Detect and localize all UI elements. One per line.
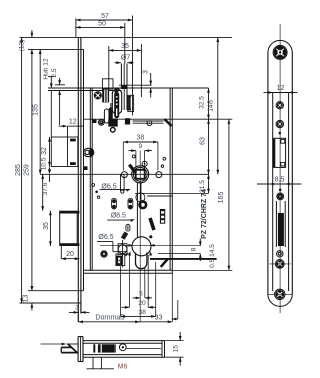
dim 148 line [216,37,219,174]
spindle hole line left [120,64,122,90]
dim 32.5 line [207,88,210,119]
bottom screw dot [122,346,124,348]
bottom plate top cap [78,336,83,338]
dim 20 deadbolt line [61,257,79,260]
latch bolt head outline [112,90,121,114]
faceplate bottom edge [20,302,81,304]
corner gusset top right [165,119,172,126]
dim 15 line [179,332,182,366]
dim 8.5 line [257,183,302,186]
bottom case top wall inner [83,342,162,344]
dim 57 text [101,13,109,20]
svg-text:135: 135 [33,104,40,116]
dim 35 left text [43,222,50,230]
washer left inner [102,252,106,256]
svg-text:(13): (13) [19,40,26,52]
pivot horizontal line [113,251,127,253]
side inner line left [272,93,274,292]
aux follower dark half [89,149,94,156]
bottom latch top line [67,343,79,345]
bottom case top wall [83,340,165,342]
dim 3 top line [149,73,152,98]
side slot left [275,201,277,247]
side plate top arc [268,40,292,52]
spring pin dark head left [112,199,116,208]
svg-text:20: 20 [138,300,146,307]
dim 57 left ext [75,18,77,37]
dim 148 text [207,100,214,112]
ext 38 left [119,266,121,316]
deadbolt inner edge [76,214,78,244]
dim 135 line [39,49,42,174]
case front wall outer [89,88,91,270]
svg-text:38: 38 [137,135,145,142]
svg-text:13: 13 [22,295,29,303]
dim 21.5 line [207,174,210,193]
latch top dark wedge [114,88,120,93]
latch bolt dark slide [114,92,119,118]
pivot square circle [118,245,127,254]
latch tail white slit [116,109,117,117]
svg-text:63: 63 [199,137,206,145]
leader 33 right arrow [172,300,178,320]
side top screw dark [276,48,285,57]
side cyl ring [277,251,283,257]
dim 3 plate ext left [77,303,79,322]
svg-text:35: 35 [121,43,129,50]
ext cyl right [147,255,149,307]
cylinder slot [136,253,147,269]
spring pin dark head right [129,199,133,208]
side plate right edge [291,52,293,294]
side plate centerline [279,24,281,313]
dim 35 left extension [108,46,110,89]
dim 38 text [139,309,147,316]
dim Hub12 line [50,77,53,88]
case top second line (2.5 offset) [48,90,122,92]
lift lever line left [120,174,122,191]
side plate bottom arc [268,294,292,306]
guide slot rectangle [128,95,134,111]
dim 13 text [22,295,29,303]
latch axis line [84,118,233,120]
dim 12 side line [264,91,298,94]
lever dark foot [121,232,128,240]
bottom latch left cap [60,347,62,352]
PZ text [201,189,208,239]
svg-text:57: 57 [101,13,109,20]
label dia8.5 leader [107,219,135,222]
small circle above follower [132,155,135,158]
latch spring retainer top line [119,84,152,86]
dim 38 follower line [123,141,158,144]
guide slot cap bottom [128,109,131,111]
side screw 4 centerline [270,263,291,265]
bottom latch bar top [61,346,72,348]
side screw 1 dark [278,103,282,107]
bottom case bottom wall inner [83,354,162,356]
fixing hole right [156,172,162,178]
dim Dornmass text [95,315,124,322]
dim 32 text [41,147,48,155]
dim 9 ext right [144,151,146,170]
washer inner ring [100,121,103,124]
lever pin outline [126,224,130,231]
deadbolt top thick edge [60,211,80,214]
slider notch 2 [161,216,164,219]
label dia6.5 upper [101,183,116,190]
dim 63 line [207,119,210,174]
inner plate top edge [28,48,84,50]
svg-text:8: 8 [190,247,197,251]
svg-text:3: 3 [142,70,149,74]
case bottom edge outer [84,269,173,271]
pivot dot [144,163,146,165]
side top screw dot [279,51,281,53]
lever dark diagonal right [150,218,154,230]
small dark tab in case [84,166,88,170]
dim 10.5 arrows [48,160,51,183]
dim 21.5 text [199,180,206,193]
dim 20 bottom text [138,300,146,307]
spring pin capsule right [128,198,133,209]
corner gusset bottom right [161,259,168,267]
dim 5 text [139,290,143,297]
svg-text:15: 15 [173,345,180,353]
pivot square [118,244,127,255]
spindle dark cap [122,85,128,89]
dim 12 aux line [59,125,84,128]
line 8 bottom ext [158,253,200,255]
tiny circle b [95,191,100,199]
svg-text:Ø7: Ø7 [121,54,130,61]
aux follower dot [87,152,88,153]
side small dot [279,132,282,135]
guide slot cap top [128,96,131,98]
bottom latch leader [41,343,67,346]
spring pin capsule left [112,198,117,209]
keyhole square outline [116,254,125,266]
dim 57 right extension [132,16,134,116]
dim 35 top line [109,49,142,52]
bottom latch bevel [68,344,77,353]
svg-text:PZ 72/CHRZ 74: PZ 72/CHRZ 74 [201,189,208,239]
case front wall inner [91,88,93,270]
latch guide rail lower [133,122,164,124]
dim 20 deadbolt text [66,251,74,258]
bottom plate front [77,337,79,362]
follower square hole [136,170,145,179]
side plate left edge [267,52,269,294]
side screw 4 [275,260,284,269]
dim 285 text [15,164,22,176]
side screw 4 dark [277,261,282,266]
aux latch box [51,137,78,167]
spring dark diagonal [129,165,135,173]
M6 base line [87,368,115,370]
double line 0.5 lower [150,259,217,261]
side screw 2 dark [278,122,282,126]
ext case back down [171,273,173,322]
faceplate outer back edge [80,37,82,313]
svg-text:10.5: 10.5 [41,157,48,170]
svg-text:148: 148 [207,100,214,112]
svg-text:259: 259 [23,164,30,176]
white capsule outline [104,109,109,123]
svg-text:285: 285 [15,164,22,176]
svg-text:32.5: 32.5 [198,96,205,109]
latch slide rivet 3 [116,103,118,105]
case back edge outer [171,88,173,273]
dim 9 text [138,143,142,150]
cylinder horizontal centerline [100,244,200,256]
lever dot [149,235,152,238]
svg-text:38: 38 [139,309,147,316]
side screw 5 [275,289,285,299]
dim (13) text [19,40,26,52]
aux inner guide line [59,98,61,125]
latch spring dark block [102,89,109,103]
svg-text:3: 3 [75,304,79,311]
dim Hub12 tick [48,76,55,78]
M6 hole right [100,357,102,369]
svg-text:8.5: 8.5 [275,176,285,183]
dim 15 ext bottom [165,356,184,358]
aux latch tab bottom [70,162,76,165]
case back edge inner [169,88,171,270]
dim 37.6 line [41,174,44,210]
side screw 3 dark [278,195,282,199]
bottom plate bottom cap [78,361,83,363]
screw head upper left slotted ring [95,93,100,98]
double line 0.5 upper [150,258,217,260]
dim 63 text [199,137,206,145]
washer ring below stop [111,128,116,133]
svg-text:2.5: 2.5 [51,68,58,77]
spindle hole line right [126,64,128,111]
svg-text:Ø8.5: Ø8.5 [111,213,126,220]
dim 135 text [33,104,40,116]
svg-text:35: 35 [43,222,50,230]
dim 9 ext left [135,151,137,170]
dim 3 bottom text [75,304,79,311]
tiny circle right [161,157,166,167]
dim 2.5 tick [55,84,65,86]
side latch notch top [281,140,285,144]
case bottom edge inner [84,272,173,274]
latch slide rivet 2 [116,100,118,102]
case top edge [48,87,209,89]
aux line below [147,195,172,197]
dim 35 left line [49,211,52,246]
aux latch tab top [70,139,76,142]
dim dia7 arrows [115,61,134,64]
bottom dark follower block [98,344,115,352]
cylinder circle [132,237,151,256]
bottom latch bar bottom [61,352,78,354]
dim 20 arrows [122,306,157,309]
side latch cutout thick left [273,139,275,167]
case bottom right ext [172,269,232,271]
dim 285 line [20,37,23,303]
dim 20 ext [60,246,62,259]
M6 hole left [92,357,94,369]
label dia6.5 lower [98,234,113,241]
latch tail channel left [110,103,112,119]
dark thick ring [140,202,147,209]
keyhole dark square [117,257,121,265]
pivot dot right [149,122,151,124]
dim 9 arrows [129,149,153,152]
svg-text:Ø6.5: Ø6.5 [98,234,113,241]
dim 3 top text [142,70,149,74]
washer center dot [101,122,102,123]
dark small block right [125,118,130,124]
dim 15 text [173,345,180,353]
dim 57 line [76,19,133,22]
follower outer circle [132,166,149,183]
lift lever line right [123,174,125,191]
dim 38 follower ext left [122,142,124,171]
svg-text:0.5 14.5: 0.5 14.5 [209,244,216,268]
dim 50 text [98,20,106,27]
pivot vertical line [122,240,124,268]
side screw 3 [277,193,284,200]
svg-text:5: 5 [139,290,143,297]
dim 165 line [228,119,231,270]
side inner line right [288,93,290,292]
latch guide rail upper [133,120,164,122]
dark slider bar [160,209,165,224]
tiny circle a [92,184,95,187]
cylinder vertical centerline [139,151,141,322]
dim 15 ext top [165,340,184,342]
aux follower ring [85,150,89,154]
follower axis line [40,173,208,175]
lever pin slit [127,226,129,230]
side slot right [284,201,286,247]
dim 38 follower text [137,135,145,142]
dim 32.5 text [198,96,205,109]
pivot ring right [147,121,152,126]
dim 35 top text [121,43,129,50]
lift lever bottom circle [121,190,124,193]
svg-text:M6: M6 [118,363,128,370]
faceplate top edge + top extension line [20,36,232,38]
side screw 5 dark [277,291,283,297]
dim 165 text [218,192,225,204]
latch guide block [102,79,113,89]
dim 2.5 text [51,68,58,77]
side screw 5 centerline [268,293,292,295]
dark square stop [108,119,117,127]
dim 259 line [31,49,34,290]
side top screw ring [273,45,287,59]
svg-text:32: 32 [41,147,48,155]
label dia6.5 lower leader [97,242,129,257]
bottom dark tick [93,344,95,352]
bottom case end inner [161,341,163,358]
bottom case bottom wall [83,356,165,358]
bottom screw circle [119,344,126,351]
washer double ring [98,119,104,125]
inner plate bottom edge [28,290,84,292]
dark block at front wall [93,120,97,123]
keyhole dark dot [118,260,120,262]
svg-text:50: 50 [98,20,106,27]
latch spring white slit 1 [104,89,105,102]
link bar right [140,183,142,207]
dim 38 line [120,315,155,318]
dim 3 plate ext right [80,303,82,314]
deadbolt bottom thick edge [60,243,80,246]
dim 2.5 arrows [58,78,61,98]
bottom plate mid [80,337,82,362]
dim dia7 text [121,54,130,61]
latch slide rivet 1 [116,96,118,98]
dim 8 line [199,239,202,262]
aux left guide line [50,91,52,138]
dim 10.5 text [41,157,48,170]
dim 3 bottom arrows [69,311,90,314]
slider notch 1 [161,211,164,214]
follower inner circle [133,167,147,181]
label dia6.5 upper leader [100,189,131,192]
bottom centerline right [126,348,161,350]
label dia8.5 [111,213,126,220]
side latch cutout [273,138,286,167]
side cyl ring inner [278,252,281,255]
side dot above screw [279,189,282,192]
link bar left [136,183,138,237]
svg-text:12: 12 [69,118,77,125]
dim 50 right extension [124,23,126,64]
dim 21.5 ext line [135,192,209,194]
slider notch 3 [161,220,164,223]
bottom case end [164,341,166,358]
guide slot dark bar [128,97,130,110]
dim 0.5 14.5 text [209,244,216,268]
label M6 [118,363,128,370]
dim 259 text [23,164,30,176]
svg-text:Hub 12: Hub 12 [43,58,50,80]
dim 33 text [155,315,163,322]
svg-text:37.6: 37.6 [42,182,49,195]
dim 5 arrows [133,297,153,300]
fixing hole left [121,172,127,178]
dark bar beside capsule [109,108,113,120]
side screw 1 [276,102,283,109]
side latch notch bottom [281,162,285,166]
dim Dornmass line [78,320,172,323]
dim 50 line [76,26,125,29]
bottom plate back [82,337,84,362]
svg-text:9: 9 [138,143,142,150]
latch tail channel right [111,103,113,119]
side screw 2 [276,120,283,127]
spindle hole line mid [123,64,125,111]
aux latch divider [67,126,69,166]
washer left of keyhole [101,251,107,257]
dim 37.6 text [42,182,49,195]
dim 12 aux text [69,118,77,125]
dim 12 side text [277,85,285,92]
svg-text:165: 165 [218,192,225,204]
dim 38 follower ext right [157,142,159,171]
latch spring white slit 2 [107,89,108,102]
dim 8 text [190,247,197,251]
aux follower capsule [84,148,94,156]
